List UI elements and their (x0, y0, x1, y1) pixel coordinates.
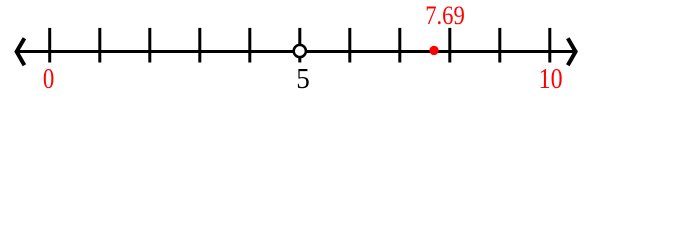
tick 7 (398, 28, 401, 63)
svg-text:7.69: 7.69 (425, 1, 465, 30)
svg-text:5: 5 (296, 63, 310, 95)
svg-text:0: 0 (43, 63, 54, 95)
tick 1 (98, 28, 101, 63)
filled red point at 7.69 (429, 46, 438, 55)
tick 2 (148, 28, 151, 63)
right arrowhead (568, 38, 576, 65)
tick 9 (498, 28, 501, 63)
number line shaft (15, 50, 577, 53)
tick 10 (548, 28, 551, 63)
svg-text:10: 10 (539, 63, 563, 94)
tick 6 (348, 28, 351, 63)
tick 8 (448, 28, 451, 63)
tick 4 (248, 28, 251, 63)
tick 0 (48, 28, 51, 63)
open circle at 5 (294, 45, 306, 57)
tick 3 (198, 28, 201, 63)
left arrowhead (17, 38, 25, 65)
tick 5 (298, 28, 301, 63)
